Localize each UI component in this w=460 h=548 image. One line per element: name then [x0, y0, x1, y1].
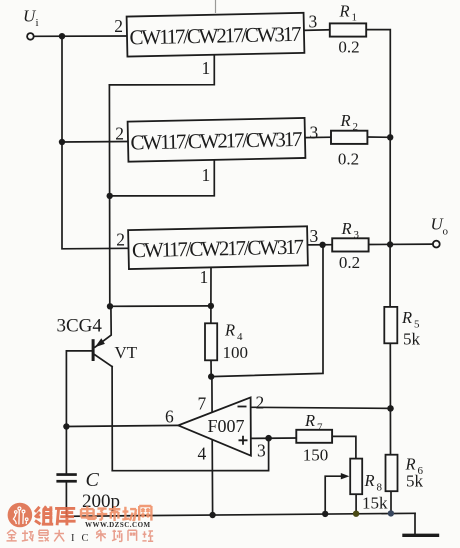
wire R4 bottom lead [210, 360, 212, 376]
svg-text:4: 4 [198, 444, 207, 464]
svg-text:3: 3 [310, 226, 319, 246]
resistor R4 [205, 321, 248, 362]
wire ground rail [66, 513, 415, 516]
svg-text:1: 1 [352, 12, 358, 24]
svg-text:6: 6 [165, 407, 174, 427]
wire U1 pin3 to R1 [304, 29, 331, 32]
svg-text:CW117/CW217/CW317: CW117/CW217/CW317 [130, 127, 302, 155]
potentiometer R8 [341, 459, 388, 513]
resistor R7 [296, 411, 332, 465]
wire right rail R2 to R3 [389, 137, 391, 244]
capacitor C [56, 469, 120, 512]
regulator U1 CW117/CW217/CW317 [127, 13, 305, 57]
label Uo [431, 214, 449, 237]
wire R6 to ground rail [390, 491, 392, 513]
svg-text:1: 1 [202, 58, 211, 78]
svg-text:8: 8 [377, 482, 383, 494]
svg-text:R: R [401, 308, 412, 327]
svg-text:7: 7 [317, 422, 323, 434]
svg-text:WWW.DZSC.COM: WWW.DZSC.COM [85, 521, 151, 529]
wire R7 to R8 [332, 436, 356, 458]
node input rail mid [59, 139, 65, 145]
svg-text:4: 4 [237, 331, 243, 343]
wire op-amp supply vertical [211, 377, 214, 515]
regulator U3 CW117/CW217/CW317 [128, 226, 308, 269]
svg-text:I: I [71, 533, 75, 544]
wire R8 wiper [325, 476, 342, 514]
svg-text:R: R [341, 219, 352, 238]
label Ui [23, 6, 39, 29]
terminal Uo [433, 241, 440, 248]
svg-text:1: 1 [202, 165, 211, 185]
svg-text:VT: VT [115, 343, 138, 362]
svg-text:F007: F007 [207, 416, 244, 436]
svg-text:7: 7 [198, 394, 207, 414]
svg-text:3CG4: 3CG4 [57, 316, 103, 337]
wire U2 pin3 to R2 [305, 136, 331, 138]
wire feedback horizontal [211, 245, 323, 377]
svg-text:R: R [339, 2, 350, 21]
watermark text dianzishichangwang [81, 506, 151, 521]
svg-text:3: 3 [310, 123, 319, 143]
svg-text:150: 150 [303, 446, 329, 465]
watermark slogan [7, 530, 154, 544]
svg-text:2: 2 [256, 393, 265, 413]
wire R2 to right rail [367, 136, 390, 138]
svg-text:R: R [224, 321, 235, 340]
svg-text:CW117/CW217/CW317: CW117/CW217/CW317 [132, 235, 304, 263]
node R2 output [387, 134, 393, 140]
wire op-amp pin2 [251, 407, 391, 408]
node supply ground [209, 512, 215, 518]
wire R4 top lead [210, 306, 212, 323]
node R6 ground [388, 510, 394, 516]
wire VT collector riser [111, 367, 113, 471]
svg-text:1: 1 [200, 267, 209, 287]
node input rail top [59, 33, 65, 39]
svg-text:2: 2 [116, 230, 125, 250]
wire U3 pin3 to R3 [308, 244, 333, 246]
node wiper ground [322, 511, 328, 517]
wire adj rail [108, 85, 110, 306]
svg-text:100: 100 [223, 343, 249, 362]
wire right rail R5 to R6 [389, 343, 391, 454]
svg-text:2: 2 [114, 16, 123, 36]
watermark text weiku [35, 506, 76, 525]
svg-text:R: R [304, 411, 315, 430]
wire input rail upper [61, 36, 63, 142]
svg-text:5k: 5k [406, 472, 424, 491]
svg-text:0.2: 0.2 [339, 253, 360, 272]
wire Ui to U1 pin2 [34, 35, 127, 37]
watermark logo [8, 503, 33, 528]
svg-text:2: 2 [115, 124, 124, 144]
node R4 bottom [208, 373, 214, 379]
svg-text:3: 3 [257, 441, 266, 461]
svg-text:C: C [86, 469, 100, 491]
node R8 ground [353, 511, 359, 517]
wire VT collector diagonal [95, 355, 113, 367]
terminal Ui [27, 33, 34, 40]
svg-text:R: R [364, 471, 375, 490]
node adj U2 [107, 193, 113, 199]
node pin6 left [63, 423, 69, 429]
wire op-amp pin6 [66, 425, 178, 426]
wire adj link to R4 [110, 305, 211, 307]
wire pin3 descent [112, 438, 268, 471]
resistor R2 [331, 111, 367, 169]
transistor Q1 VT 3CG4 [57, 316, 138, 363]
wire U2 pin1 [110, 161, 215, 196]
ground [414, 513, 416, 534]
resistor R3 [332, 219, 368, 272]
svg-text:R: R [340, 111, 351, 130]
regulator U2 CW117/CW217/CW317 [128, 118, 306, 162]
node R3 right rail [387, 241, 393, 247]
svg-text:2: 2 [353, 121, 359, 133]
svg-text:5: 5 [414, 318, 420, 330]
svg-text:3: 3 [354, 229, 360, 241]
svg-text:0.2: 0.2 [338, 38, 359, 57]
wire cap top lead [65, 427, 67, 474]
svg-text:15k: 15k [362, 494, 388, 513]
wire op-amp pin3 to R7 [251, 437, 296, 439]
svg-text:o: o [443, 226, 449, 238]
wire R3 to Uo [368, 243, 433, 245]
wire VT base lead [66, 351, 91, 427]
wire cap bottom lead [65, 483, 67, 517]
svg-text:i: i [36, 17, 39, 29]
wire U1 pin1 [109, 55, 214, 85]
resistor R1 [330, 2, 366, 57]
svg-text:0.2: 0.2 [338, 150, 359, 169]
svg-text:3: 3 [309, 12, 318, 32]
resistor R5 [384, 307, 420, 349]
wire VT emitter [95, 306, 111, 347]
svg-text:5k: 5k [403, 330, 421, 349]
wire R8 bottom lead [355, 494, 357, 513]
node R4 top [208, 303, 214, 309]
wire U3 pin1 [210, 267, 212, 306]
node op-amp pin2 on rail [387, 405, 394, 412]
node adj bottom [107, 303, 113, 309]
node pin3 [265, 435, 272, 442]
op-amp U4 F007 [165, 393, 266, 464]
wire right rail R3 to R5 [389, 245, 391, 307]
svg-text:CW117/CW217/CW317: CW117/CW217/CW317 [129, 22, 301, 50]
wire input rail lower [62, 142, 129, 249]
svg-text:C: C [82, 533, 89, 544]
node U3 output [319, 242, 325, 248]
wire to U2 pin2 [62, 141, 128, 144]
wire R1 to right rail [366, 30, 390, 138]
resistor R6 [386, 455, 424, 492]
